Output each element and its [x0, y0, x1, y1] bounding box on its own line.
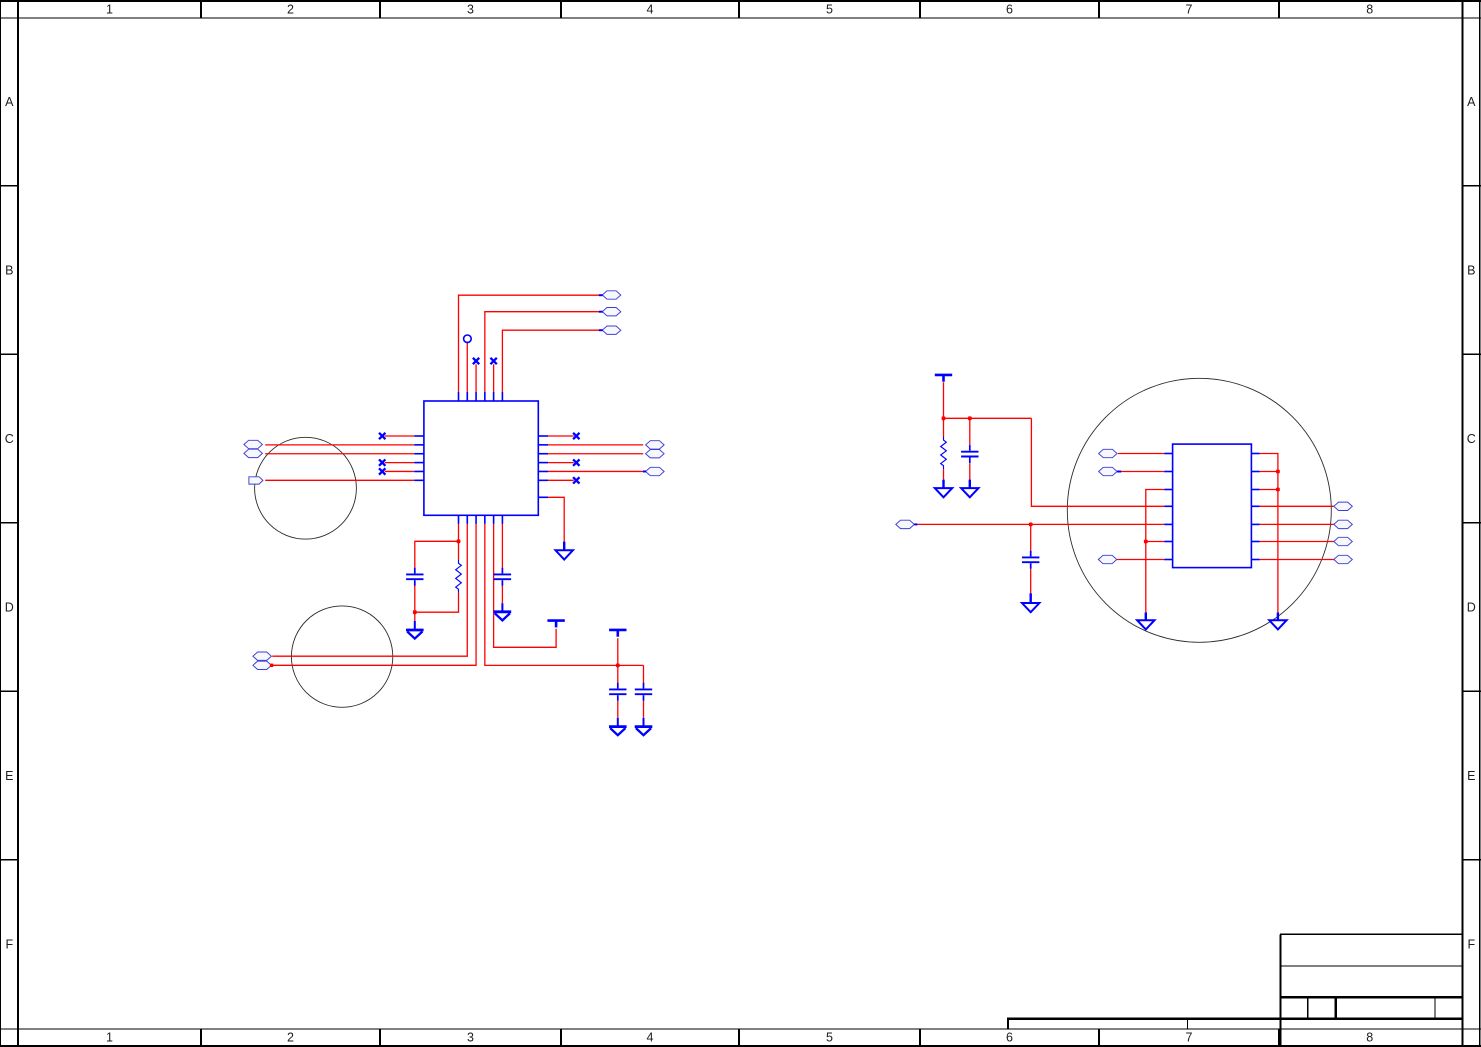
junction C5 node — [968, 416, 972, 420]
wire pin5-top to no-connect — [493, 364, 495, 392]
ground (left rail) — [1137, 620, 1154, 629]
capacitor C6 — [1022, 551, 1039, 569]
port I (top out 1) — [602, 291, 621, 299]
wire IC pin R2 to rail — [1260, 471, 1278, 473]
svg-text:6: 6 — [1006, 1031, 1013, 1045]
svg-text:A: A — [1467, 95, 1476, 109]
svg-text:E: E — [1467, 769, 1475, 783]
wire no-connect stub left row5 — [385, 470, 414, 472]
wire capacitor C5 top lead — [969, 418, 971, 445]
wire IC pin R4 to port O — [1260, 505, 1334, 507]
svg-text:2: 2 — [287, 2, 294, 16]
svg-text:B: B — [5, 263, 13, 277]
ground stem pin7 — [563, 542, 565, 551]
svg-text:D: D — [1467, 600, 1476, 614]
ground stem below C4 — [643, 718, 645, 727]
wire corner down to IC pin L4 — [1031, 418, 1164, 506]
port K (top out 3) — [602, 326, 621, 334]
svg-text:5: 5 — [826, 1031, 833, 1045]
port M (in 2) — [1099, 467, 1118, 475]
svg-text:8: 8 — [1366, 1031, 1373, 1045]
ground stem below R2 — [942, 480, 944, 488]
wire no-connect stub right row4 — [548, 462, 574, 464]
port S (main input) — [896, 520, 915, 528]
port O (out 1) — [1334, 502, 1353, 510]
ground (right rail) — [1269, 620, 1286, 629]
wire capacitor C4 bottom to ground — [643, 701, 645, 718]
no-connect left row1 — [379, 433, 385, 439]
ground stem below C2 — [501, 603, 503, 611]
capacitor C5 — [961, 445, 978, 463]
wire nub at port I — [599, 294, 603, 296]
ground stem right rail — [1277, 612, 1279, 620]
junction R2/right rail — [1276, 470, 1280, 474]
transducer circle (upper speaker/mic outline) — [255, 437, 357, 539]
no-connect right row6 — [573, 477, 579, 483]
ground stem left rail — [1145, 612, 1147, 620]
svg-text:B: B — [1467, 263, 1475, 277]
junction node caps/power tap — [616, 664, 620, 668]
wire nub at port J — [599, 311, 603, 313]
wire left port A to IC pin — [265, 444, 414, 446]
wire left port B to IC pin — [265, 453, 414, 455]
junction R3/right rail — [1276, 488, 1280, 492]
wire pin2-bottom to lower port D — [272, 524, 467, 656]
ground (C6) — [1022, 603, 1039, 612]
wire nub at port K — [599, 329, 603, 331]
wire resistor bottom to node — [415, 593, 459, 612]
wire capacitor C6 bottom to ground — [1030, 569, 1032, 594]
port B (left in 2) — [244, 449, 263, 457]
no-connect left row4 — [379, 459, 385, 465]
svg-text:2: 2 — [287, 1031, 294, 1045]
svg-text:3: 3 — [467, 2, 474, 16]
wire right pin row5 to port — [548, 470, 643, 472]
wire capacitor C3 bottom to ground — [617, 701, 619, 718]
svg-text:F: F — [1467, 937, 1475, 951]
no-connect right row1 — [573, 433, 579, 439]
svg-text:8: 8 — [1366, 2, 1373, 16]
ground (C5) — [961, 488, 978, 497]
port N (in 3) — [1098, 555, 1117, 563]
wire IC pin R3 to rail — [1260, 489, 1278, 491]
wire port N to IC pin L7 — [1117, 559, 1164, 561]
wire right pin row2 to port — [548, 444, 643, 446]
port P (out 2) — [1334, 520, 1353, 528]
ground (pin7) — [556, 550, 573, 559]
svg-text:3: 3 — [467, 1031, 474, 1045]
wire pin4-top to port (net OUT2) — [485, 312, 599, 392]
wire nub at port E — [270, 664, 273, 667]
wire no-connect stub left row4 — [385, 462, 414, 464]
svg-text:1: 1 — [106, 2, 113, 16]
ground stem below C6 — [1029, 593, 1031, 602]
ground (C2) — [494, 612, 512, 621]
ground (R2) — [935, 488, 952, 497]
port Q (out 3) — [1334, 537, 1353, 545]
power tap T2 — [609, 630, 626, 637]
wire port M to IC pin L2 — [1121, 471, 1164, 473]
transducer circle (right module outline) — [1067, 378, 1331, 642]
svg-text:E: E — [5, 769, 13, 783]
wire cap node to capacitor C4 — [643, 665, 645, 683]
wire pin3-bottom to lower port E — [272, 524, 476, 665]
no-connect pin3-top — [473, 358, 479, 364]
wire nub at port S — [914, 523, 917, 525]
wire IC pin R7 to port R — [1260, 559, 1334, 561]
svg-text:4: 4 — [647, 2, 654, 16]
no-connect left row5 — [379, 468, 385, 474]
wire pin2-top to testpoint — [466, 342, 468, 392]
wire capacitor C2 bottom to ground — [501, 586, 503, 604]
wire pin1-bottom through R/C node — [458, 524, 460, 560]
power tap T3 — [935, 375, 952, 382]
wire left port C to IC pin — [265, 479, 414, 481]
ground stem below C1 node — [414, 621, 416, 630]
wire resistor R2 bottom to ground — [943, 469, 945, 479]
wire node to capacitor C1 — [415, 541, 459, 568]
wire pin1-top to port (net OUT1) — [459, 295, 600, 392]
wire cap node down to capacitor C3 — [617, 665, 619, 683]
resistor R1 — [456, 560, 462, 593]
wire pin5-bottom to power tap — [494, 524, 556, 647]
wire power tap T2 to cap node — [617, 638, 619, 665]
wire IC pin L6 to ground rail — [1146, 541, 1164, 543]
wire junction down to capacitor C6 — [1030, 524, 1032, 551]
wire pin6-top to port (net OUT3) — [502, 330, 599, 392]
svg-text:D: D — [5, 600, 14, 614]
port F (right out 1) — [646, 441, 665, 449]
svg-text:C: C — [1467, 432, 1476, 446]
wire pin3-top to no-connect — [475, 364, 477, 392]
port C (square input port) — [249, 477, 263, 484]
transducer circle (lower speaker/mic outline) — [291, 606, 392, 707]
wire pin6-bottom to capacitor C2 — [501, 524, 503, 568]
port D (lower left 1) — [253, 652, 272, 660]
capacitor C3 — [609, 683, 626, 701]
amplifier IC U2 — [1164, 444, 1260, 567]
capacitor C1 — [406, 568, 423, 586]
port E (lower left 2) — [253, 661, 272, 669]
wire resistor R2 top lead — [943, 418, 945, 436]
junction L6/ground rail — [1144, 540, 1148, 544]
wire capacitor C1 bottom to ground node — [414, 586, 416, 621]
testpoint TP1 — [464, 335, 472, 343]
junction node C1/R1/ground — [413, 610, 417, 614]
wire IC pin L3 to ground rail — [1146, 490, 1164, 613]
wire IC pin R1 to right ground rail — [1260, 454, 1278, 613]
wire nub at port M — [1117, 471, 1121, 473]
capacitor C4 — [635, 683, 652, 701]
junction T3/R2 node — [942, 416, 946, 420]
wire port L to IC pin L1 — [1118, 453, 1164, 455]
ground stem below C3 — [617, 718, 619, 727]
wire no-connect stub right row1 — [548, 435, 574, 437]
op-amp/codec IC U1 — [414, 392, 548, 524]
ground stem below C5 — [969, 480, 971, 488]
svg-text:F: F — [5, 937, 13, 951]
wire node across to corner — [944, 417, 1032, 419]
port G (right out 2) — [646, 450, 665, 458]
wire IC pin R6 to port Q — [1260, 541, 1334, 543]
capacitor C2 — [494, 568, 511, 586]
resistor R2 — [941, 437, 947, 470]
port H (right out 3) — [646, 467, 665, 475]
wire main input port to IC pin L5 — [917, 523, 1164, 525]
wire nub at port H — [643, 470, 646, 472]
wire right pin row3 to port — [548, 453, 643, 455]
wire right pin7 to ground — [548, 497, 564, 541]
port J (top out 2) — [602, 308, 621, 316]
wire no-connect stub right row6 — [548, 479, 574, 481]
wire IC pin R5 to port P — [1260, 523, 1334, 525]
svg-text:C: C — [5, 432, 14, 446]
svg-text:7: 7 — [1186, 1031, 1193, 1045]
wire capacitor C5 bottom to ground — [969, 463, 971, 479]
port A (left in 1) — [244, 440, 263, 448]
ground (C3) — [609, 727, 627, 736]
svg-text:7: 7 — [1186, 2, 1193, 16]
power tap T1 — [547, 621, 564, 628]
junction input/C6 node — [1029, 523, 1033, 527]
svg-text:5: 5 — [826, 2, 833, 16]
wire no-connect stub left row1 — [385, 435, 414, 437]
svg-text:1: 1 — [106, 1031, 113, 1045]
no-connect pin5-top — [490, 358, 496, 364]
svg-text:6: 6 — [1006, 2, 1013, 16]
svg-text:A: A — [5, 95, 14, 109]
no-connect right row4 — [573, 459, 579, 465]
ground (C4) — [635, 727, 653, 736]
ground (C1/R1) — [406, 630, 424, 639]
port R (out 4) — [1334, 555, 1353, 563]
svg-text:4: 4 — [647, 1031, 654, 1045]
wire power tap T3 down to node — [943, 382, 945, 418]
port L (in 1) — [1099, 449, 1118, 457]
wire pin4-bottom to decoupling caps — [485, 524, 644, 666]
junction node pin1/C1 — [457, 539, 461, 543]
